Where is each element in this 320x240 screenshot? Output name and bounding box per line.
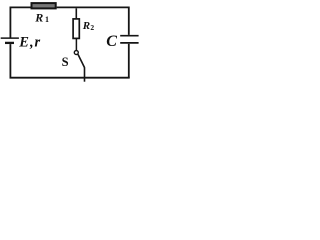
switch S pivot circle	[74, 51, 78, 55]
wire top-right segment with corner	[57, 7, 129, 35]
switch S lever	[78, 54, 85, 67]
switch S contact post	[84, 67, 86, 82]
svg-text:R: R	[34, 10, 43, 24]
battery E,r long plate	[1, 37, 19, 39]
svg-text:C: C	[106, 33, 117, 50]
battery E,r short plate	[5, 42, 14, 44]
wire right lower segment	[128, 44, 130, 78]
resistor R1	[32, 3, 56, 8]
svg-text:S: S	[62, 55, 69, 69]
svg-text:E,r: E,r	[18, 34, 40, 50]
resistor R2	[73, 19, 79, 39]
wire bottom segment	[10, 77, 130, 79]
wire top-left segment with corner	[10, 7, 30, 37]
wire R2 to switch	[75, 39, 77, 51]
svg-text:1: 1	[45, 15, 49, 24]
capacitor C top plate	[120, 35, 138, 37]
capacitor C bottom plate	[120, 42, 138, 44]
svg-text:2: 2	[90, 23, 94, 32]
node junction top middle	[75, 8, 77, 18]
wire left lower segment	[9, 44, 11, 78]
svg-text:R: R	[82, 20, 90, 32]
